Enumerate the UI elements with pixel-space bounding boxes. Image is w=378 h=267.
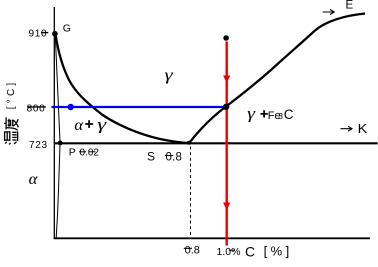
tick through 0.8 zero	[165, 155, 173, 157]
curve SE (Acm line)	[189, 14, 365, 144]
dot G	[52, 31, 58, 37]
red cooling line	[225, 42, 227, 246]
dot P	[58, 141, 63, 146]
svg-text:1.0%: 1.0%	[217, 246, 241, 258]
tick through 910 zero	[41, 32, 48, 34]
svg-text:723: 723	[29, 140, 48, 151]
black junction dot at 800C intersection	[223, 104, 229, 110]
svg-text:γ: γ	[165, 67, 174, 84]
x-axis	[54, 237, 370, 239]
dot at top of red line	[223, 35, 229, 41]
svg-text:C: C	[245, 244, 255, 260]
red arrowhead lower	[223, 203, 230, 211]
dot S	[187, 141, 191, 145]
svg-text:K: K	[358, 121, 368, 136]
svg-text:C: C	[284, 107, 294, 122]
svg-text:3: 3	[278, 111, 283, 121]
blue marker dot	[68, 104, 74, 110]
plus sign of gamma+Fe3C	[261, 110, 268, 117]
red arrowhead upper	[223, 76, 230, 84]
line PQ	[56, 145, 60, 238]
tick through 1.0% zero	[229, 249, 235, 251]
ticks through 0.02 zeros	[79, 151, 86, 153]
y-axis	[53, 7, 55, 239]
svg-text:α: α	[74, 117, 83, 134]
tick through x-axis 0.8 zero	[184, 247, 192, 249]
svg-text:0.02: 0.02	[80, 148, 100, 159]
svg-text:G: G	[63, 23, 71, 35]
svg-text:γ: γ	[97, 116, 107, 134]
arrow to E	[323, 10, 335, 15]
svg-text:E: E	[346, 0, 354, 12]
curve GOS (A3 line)	[56, 34, 191, 143]
y-axis label kanji 温 (rotated)	[5, 131, 18, 144]
svg-text:γ: γ	[247, 105, 256, 122]
tick through 800	[27, 106, 46, 108]
svg-text:[%]: [%]	[264, 244, 293, 259]
y-axis label kanji 度 (rotated)	[4, 117, 18, 130]
svg-text:[°C]: [°C]	[6, 80, 17, 110]
plus sign of alpha+gamma	[85, 120, 93, 128]
svg-text:S: S	[147, 149, 155, 163]
svg-text:910: 910	[29, 29, 48, 40]
svg-text:800: 800	[27, 104, 46, 115]
svg-text:0.8: 0.8	[166, 151, 183, 163]
line GP	[55, 36, 60, 142]
dashed 0.8% vertical line	[190, 147, 192, 238]
A1 line 723C	[55, 142, 378, 144]
svg-text:0.8: 0.8	[185, 244, 200, 256]
blue 800C tie line	[52, 106, 225, 108]
svg-text:P: P	[69, 147, 76, 159]
svg-text:α: α	[29, 171, 38, 188]
arrow to K	[341, 126, 353, 131]
